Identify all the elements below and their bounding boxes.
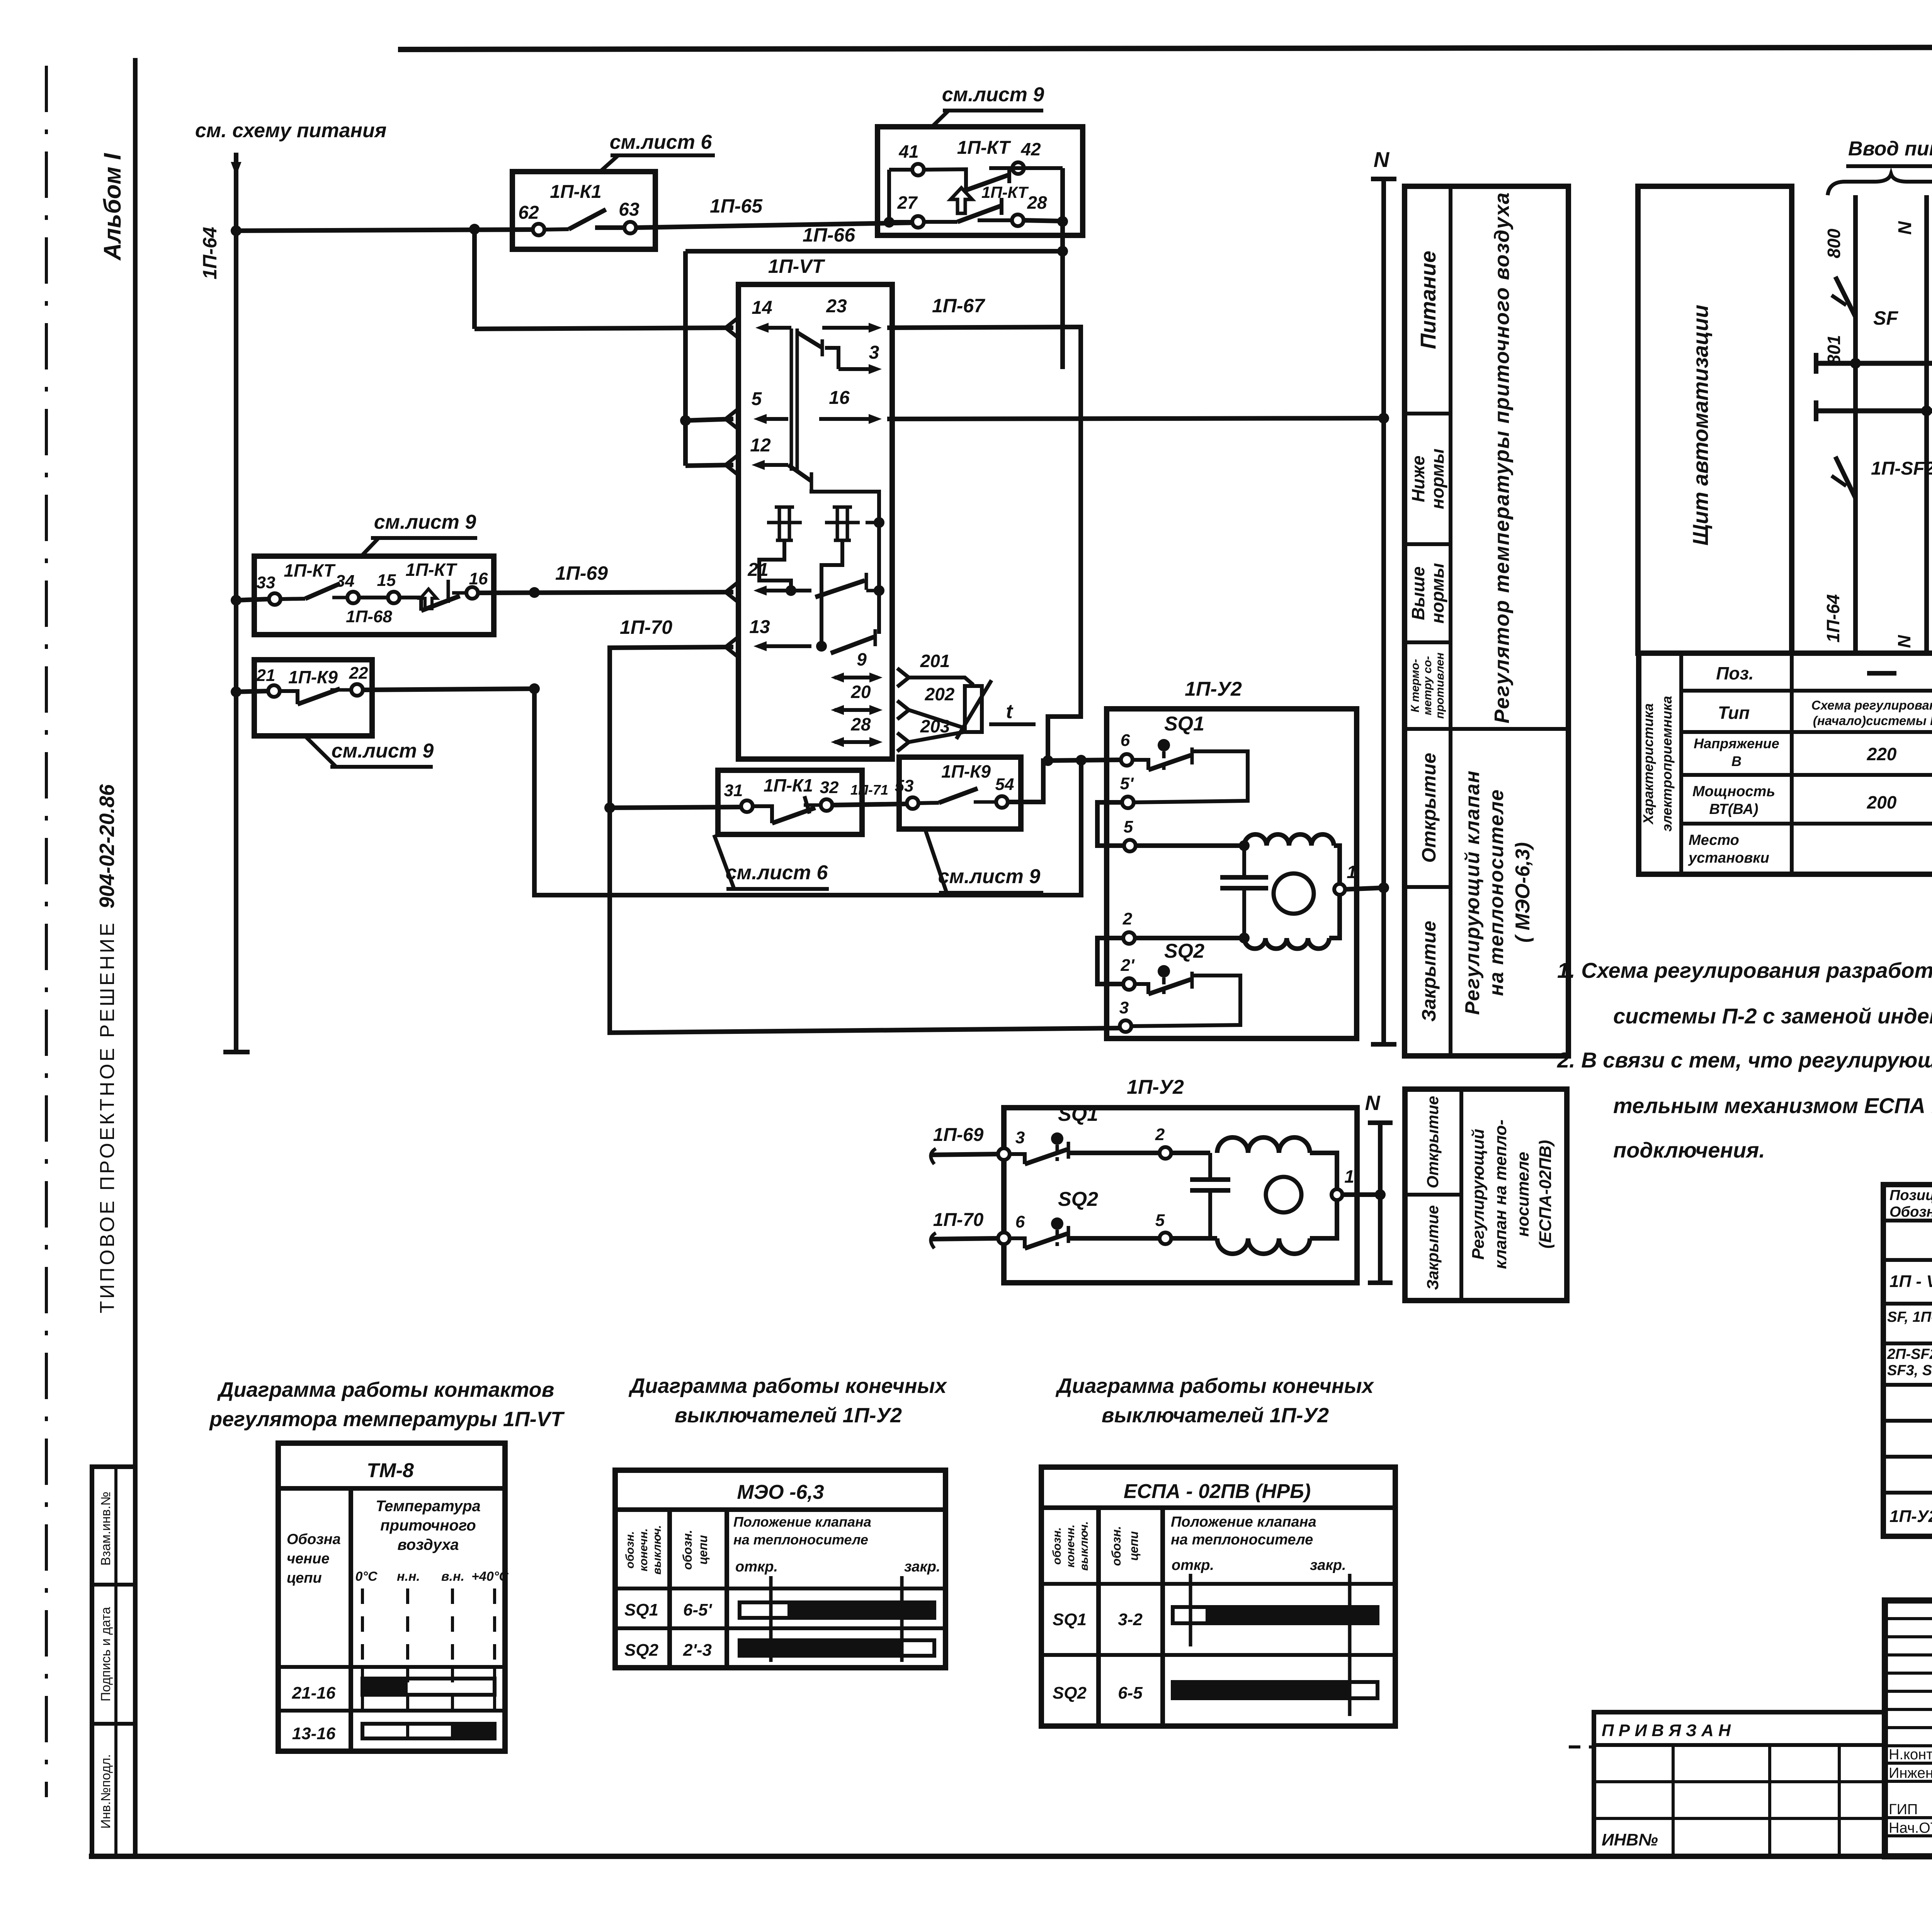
svg-text:31: 31 [724,781,743,800]
svg-text:Положение клапана: Положение клапана [1171,1514,1316,1530]
svg-text:1П-У2: 1П-У2 [1185,678,1242,700]
МЭО header Положение клапана [733,1514,871,1548]
svg-text:обозн.: обозн. [1109,1526,1123,1566]
svg-text:28: 28 [1027,192,1047,213]
svg-text:Поз.: Поз. [1716,663,1753,683]
svg-text:нормы: нормы [1427,563,1447,624]
pin 2 [1122,909,1135,944]
svg-text:5: 5 [1124,817,1133,836]
parts row 1П-VT [1889,1266,1932,1299]
svg-text:см.лист 9: см.лист 9 [374,511,476,533]
contact arm 33-34 [281,584,347,599]
svg-text:нормы: нормы [1427,449,1447,509]
svg-text:Регулятор температуры приточно: Регулятор температуры приточного воздуха [1490,192,1514,724]
pin 62 [518,203,544,235]
МЭО header [737,1481,824,1503]
callout см.лист 9 (53-54) [925,830,1043,893]
actuator 1П-У2 (МЭО-6,3) box [1107,678,1357,1039]
ТМ-8 header [367,1459,414,1482]
svg-text:закр.: закр. [1310,1557,1346,1573]
pin 3 [1119,998,1131,1032]
sidebar label Альбом I [99,153,126,261]
temperature regulator 1П-VT box [738,255,892,759]
wire 22 output to 1П-69 branch [363,683,540,694]
svg-text:SQ1: SQ1 [624,1600,658,1619]
wire net 1П-71 [833,782,907,805]
svg-text:1. Схема регулирования разра: 1. Схема регулирования разработана для с… [1557,958,1932,982]
ЕСПА header [1124,1480,1311,1503]
svg-text:21: 21 [747,560,768,580]
band label Закрытие [1418,921,1440,1021]
svg-text:Инв.№подл.: Инв.№подл. [99,1754,113,1829]
band label Открытие (ЕСПА) [1423,1096,1442,1188]
svg-text:5: 5 [1155,1211,1165,1230]
svg-text:6-5: 6-5 [1118,1684,1143,1702]
svg-text:выключ.: выключ. [651,1525,663,1575]
signal band table (ЕСПА) [1405,1089,1567,1301]
svg-text:62: 62 [518,203,539,223]
svg-text:Обозначен.: Обозначен. [1889,1204,1932,1220]
ЕСПА header Положение клапана [1171,1514,1316,1548]
svg-text:цепи: цепи [287,1570,322,1586]
relay contact box 1П-К1 31-32 [718,770,862,834]
svg-text:установки: установки [1688,850,1769,866]
phase bus 801 [1816,353,1932,374]
staff Нач.ОТД. Платонов [1889,1820,1932,1836]
svg-text:2: 2 [1155,1125,1165,1144]
svg-text:27: 27 [897,192,918,213]
svg-text:202: 202 [925,684,955,704]
svg-text:SF3, SF4: SF3, SF4 [1887,1362,1932,1379]
svg-text:см.лист 9: см.лист 9 [938,865,1041,888]
label 1П-КТ left [284,560,336,581]
net label 800 [1824,228,1844,258]
ЕСПА tick lines [1190,1574,1350,1716]
svg-text:Выше: Выше [1408,567,1428,620]
svg-text:Щит автоматизации: Щит автоматизации [1688,305,1713,545]
svg-text:SQ2: SQ2 [1058,1188,1098,1210]
terminal 203 [897,716,966,751]
callout см.лист 9 (left) [361,511,477,556]
svg-text:1П-К1: 1П-К1 [550,182,601,202]
svg-text:Диаграмма работы контактов: Диаграмма работы контактов [217,1378,554,1401]
pin 28 double arrow [831,714,883,747]
label Ввод питания [1846,138,1932,166]
svg-text:3: 3 [1119,998,1129,1017]
МЭО row SQ2 [624,1640,934,1660]
wire pin1 to N (ЕСПА) [1342,1189,1386,1200]
svg-text:41: 41 [898,141,918,162]
relay contact 1П-К1 contacts 62-63 box [512,172,655,249]
diagram title (contacts of 1П-VT) [209,1378,565,1431]
neutral bus N [1816,400,1932,421]
svg-text:см.лист 6: см.лист 6 [610,131,713,153]
ТМ-8 col label Обозначение цепи [287,1531,341,1586]
ЕСПА row SQ2 [1053,1682,1378,1702]
contact arm 21 [815,573,884,597]
svg-text:54: 54 [995,775,1014,794]
svg-text:Место: Место [1689,832,1739,848]
svg-text:Открытие: Открытие [1423,1096,1442,1188]
pin 2' [1121,956,1135,990]
svg-text:Открытие: Открытие [1418,753,1440,863]
pin 5' [1120,774,1134,808]
pin 5 [752,389,788,424]
callout см.лист 9 (К9) [305,736,434,767]
title block fine rows [1885,1619,1932,1836]
1П-КТ output junction wires [1024,168,1068,369]
pin 3 (ЕСПА) [998,1128,1025,1160]
pin 20 double arrow [831,682,883,715]
sidebar box label Подпись и дата [99,1607,113,1702]
band label Закрытие (ЕСПА) [1423,1205,1442,1290]
svg-text:выключателей 1П-У2: выключателей 1П-У2 [675,1404,902,1427]
label ПРИВЯЗАН [1602,1721,1731,1740]
svg-text:на теплоносителе: на теплоносителе [733,1532,868,1548]
neutral line N (regulator section) [1371,147,1396,1044]
wire pin1 to N [1345,882,1389,893]
svg-text:14: 14 [752,298,772,318]
band label Питание [1416,251,1440,349]
svg-text:1П-У2: 1П-У2 [1889,1507,1932,1526]
svg-text:Положение клапана: Положение клапана [733,1514,871,1530]
band label Регулирующий клапан на теплоносителе (ЕСПА-02ПВ) [1469,1120,1555,1269]
band label Ниже нормы [1408,449,1447,509]
pin 13 [749,617,811,651]
breaker SF [1832,271,1898,332]
junction thermo B to arm bus [866,517,884,528]
ТМ-8 row 21-16 [292,1679,495,1702]
ЕСПА col labels [1051,1521,1141,1571]
svg-text:откр.: откр. [1172,1557,1214,1573]
pin 14 [752,298,791,333]
svg-text:Питание: Питание [1416,251,1440,349]
svg-text:регулятора температуры 1П-VT: регулятора температуры 1П-VT [209,1408,565,1431]
svg-text:201: 201 [920,651,950,671]
neutral line N (ЕСПА section) [1365,1091,1393,1283]
svg-text:SF, 1П-SF2,: SF, 1П-SF2, [1887,1309,1932,1325]
callout см.лист 9 (top) [932,83,1044,127]
pin 2 (ЕСПА) [1155,1125,1171,1159]
svg-text:2': 2' [1121,956,1135,975]
staff Н.контр. Горская [1889,1747,1932,1763]
svg-text:200: 200 [1867,792,1897,812]
svg-text:1П-66: 1П-66 [803,224,855,246]
wire pin16 output to N [887,413,1389,424]
svg-text:тельным механизмом ЕСПА про: тельным механизмом ЕСПА производства НРБ… [1613,1093,1932,1118]
pin 42 [1012,139,1041,174]
ТМ-8 dashed scale lines [362,1588,495,1747]
svg-text:1: 1 [1347,862,1357,882]
svg-text:21-16: 21-16 [292,1684,336,1702]
svg-text:t: t [1006,700,1014,723]
1П-КТ internal left branch wire [884,170,912,228]
feeder breaker drop 1П-SF2 [1823,358,1932,653]
МЭО row SQ1 [624,1600,934,1619]
svg-text:Ниже: Ниже [1408,456,1428,502]
svg-text:см.лист 9: см.лист 9 [942,83,1044,106]
wire SQ2 to 3 [1132,976,1240,1026]
note см.схему питания [195,119,386,142]
svg-text:обозн.: обозн. [1051,1527,1063,1565]
svg-text:203: 203 [920,716,950,736]
svg-text:Схема регулирования: Схема регулирования [1811,698,1932,712]
motor winding lower [1244,895,1340,948]
ЕСПА откр закр [1172,1557,1346,1573]
ЕСПА row SQ1 [1053,1607,1378,1629]
pin 41 [898,141,924,175]
svg-text:0°С: 0°С [355,1569,378,1584]
svg-text:32: 32 [820,778,839,797]
contact arm 31-32 (closing) [753,796,821,823]
svg-text:1П-У2: 1П-У2 [1127,1076,1184,1098]
svg-text:обозн.: обозн. [624,1531,636,1569]
svg-text:(начало)системы П-1: (начало)системы П-1 [1813,713,1932,728]
sidebar box label Взам.инв.№ [99,1491,113,1566]
pin 5 stub from 1П-66 [680,410,737,428]
type cell 1 [1811,698,1932,728]
poz dash [1867,671,1896,676]
relay contact box 1П-К9 21-22 [254,660,372,736]
svg-text:( МЭО-6,3): ( МЭО-6,3) [1512,842,1534,943]
svg-text:Тип: Тип [1718,703,1750,723]
svg-text:ИНВ№: ИНВ№ [1602,1830,1658,1849]
svg-text:электроприемника: электроприемника [1659,696,1675,831]
thermostat contact box 1П-КТ 33-34-15-16 [254,556,494,635]
svg-text:Диаграмма работы конечных: Диаграмма работы конечных [1055,1374,1374,1398]
svg-text:Подпись и дата: Подпись и дата [99,1607,113,1702]
pin 5 (ЕСПА) [1155,1211,1171,1244]
svg-text:Напряжение: Напряжение [1694,735,1779,751]
svg-text:МЭО -6,3: МЭО -6,3 [737,1481,824,1503]
svg-text:3: 3 [1015,1128,1025,1147]
svg-text:SQ2: SQ2 [1164,940,1204,962]
parts row SF,1П-SF2 [1887,1309,1932,1336]
note 2 line 3 [1613,1138,1765,1162]
attachment box ПРИВЯЗАН [1594,1712,1885,1856]
svg-text:801: 801 [1824,335,1844,365]
diagram table ЕСПА-02ПВ [1041,1467,1395,1726]
svg-text:1П-КТ: 1П-КТ [284,560,336,581]
pin 32 [820,778,839,811]
staff ГИП Гуревич [1889,1801,1932,1818]
callout см.лист 6 (31-32) [714,835,829,889]
svg-text:ТИПОВОЕ ПРОЕКТНОЕ РЕШЕНИЕ: ТИПОВОЕ ПРОЕКТНОЕ РЕШЕНИЕ [96,921,119,1313]
svg-text:20: 20 [850,682,871,702]
svg-text:1П-К9: 1П-К9 [288,667,338,687]
wire net 1П-67 [887,295,1081,766]
band label Регулирующий клапан на теплоносителе (МЭО-6,3) [1461,770,1534,1015]
junction 1П-64 to 33 [231,595,269,606]
svg-text:23: 23 [826,296,847,317]
input wire 1П-70 (ЕСПА) [930,1210,998,1248]
svg-text:Закрытие: Закрытие [1418,921,1440,1021]
motor winding upper (ЕСПА) [1217,1137,1337,1190]
svg-text:5': 5' [1120,774,1134,793]
pin 1 (ЕСПА) [1332,1166,1354,1200]
contact arm 53-54 [919,788,996,803]
svg-text:ГИП: ГИП [1889,1801,1918,1818]
wire pin5 to motor [1136,840,1250,851]
svg-text:N: N [1894,635,1914,648]
pin 16 [466,569,488,599]
МЭО col labels [624,1525,710,1575]
svg-text:обозн.: обозн. [680,1530,694,1570]
sheet frame top border [398,46,1932,49]
wire element A to contact 21 [759,540,796,596]
svg-text:системы П-2 с заменой индек: системы П-2 с заменой индекса 1 в маркир… [1613,1004,1932,1028]
feeder N return 1П-SF2 [1894,405,1932,653]
svg-text:3-2: 3-2 [1118,1610,1143,1629]
svg-text:Обозна: Обозна [287,1531,341,1548]
ТМ-8 scale labels [355,1569,509,1584]
row label Напряжение В [1694,735,1779,769]
sidebar box label Инв.№подл. [99,1754,113,1829]
contact arm 27-28 [924,198,1012,222]
svg-text:противлен: противлен [1434,652,1446,718]
motor rotor circle (ЕСПА) [1266,1177,1301,1212]
pin 12 [750,435,788,470]
svg-text:1П-67: 1П-67 [932,295,985,317]
svg-text:13: 13 [749,617,770,637]
sidebar label 904-02-20.86 [95,784,119,908]
svg-text:1П-64: 1П-64 [1823,594,1843,642]
pin 27 [897,192,924,228]
svg-text:Характеристика: Характеристика [1640,703,1656,825]
parts table grid [1883,1185,1932,1536]
contact arm 21-22 К9 [280,689,351,704]
svg-text:1П-65: 1П-65 [710,195,763,217]
pin 23 [822,296,882,333]
МЭО откр закр [735,1559,940,1575]
svg-text:чение: чение [287,1551,330,1567]
input wire 1П-69 (ЕСПА) [930,1125,998,1164]
band label Выше нормы [1408,563,1447,624]
jumper bracket 5'-5 [1097,802,1124,846]
svg-text:2П-SF2,: 2П-SF2, [1887,1346,1932,1362]
svg-text:Взам.инв.№: Взам.инв.№ [99,1491,113,1566]
pin 12 stub from 1П-66 [685,456,737,474]
row label Тип [1718,703,1750,723]
callout см.лист 6 (top) [600,131,715,172]
svg-text:SQ1: SQ1 [1053,1610,1087,1629]
svg-text:ВТ(ВА): ВТ(ВА) [1709,801,1758,817]
diagram table МЭО-6,3 [615,1470,946,1668]
svg-text:220: 220 [1867,744,1897,764]
svg-text:9: 9 [857,649,867,669]
svg-text:21: 21 [256,666,276,685]
svg-text:3: 3 [869,342,879,363]
svg-text:1П-КТ: 1П-КТ [406,560,458,580]
pin 6 (ЕСПА) [998,1212,1025,1244]
wire 34-15 [346,598,392,626]
limit switch SQ1 [1133,713,1204,770]
wire net 1П-65 [636,195,918,228]
diagram title (limit switches ЕСПА) [1055,1374,1374,1427]
pin 54 [995,775,1014,808]
svg-text:К термо-: К термо- [1409,659,1422,712]
svg-text:53: 53 [895,776,914,795]
svg-text:конечн.: конечн. [637,1528,650,1571]
wire 54 output to У2 pin 6 [1008,760,1120,802]
thermo contact 15-16 with actuator [400,580,466,611]
wire pin14 from 62-junction [469,224,737,337]
supply brace [1828,174,1932,195]
svg-text:клапан на тепло-: клапан на тепло- [1491,1120,1510,1269]
limit switch SQ2 [1135,940,1204,994]
svg-text:см.лист 6: см.лист 6 [726,861,828,884]
wire 1П-69 branch to У2 pin 6 [529,587,1087,895]
pin 31 [724,781,753,812]
wire SQ1 to 5' [1134,751,1248,802]
svg-text:Регулирующий: Регулирующий [1469,1129,1488,1260]
svg-text:SQ1: SQ1 [1164,713,1204,735]
parts row 1П-У2 [1889,1498,1932,1531]
pin 34 [336,572,359,603]
terminal 201 [897,651,973,687]
svg-text:N: N [1365,1091,1381,1115]
motor winding lower (ЕСПА) [1217,1200,1337,1254]
pin 28 [1012,192,1047,226]
pin 53 [895,776,918,809]
svg-text:1П-64: 1П-64 [199,227,221,279]
svg-text:на теплоносителе: на теплоносителе [1485,789,1508,996]
svg-text:закр.: закр. [904,1559,940,1575]
row label Поз. [1716,663,1753,683]
svg-text:Температура: Температура [376,1498,481,1515]
svg-text:1П-VT: 1П-VT [768,255,826,277]
wire net 1П-66 [685,224,1063,466]
regulator contact arm top (14/23/3) [797,332,838,369]
regulator contact arm pin12 [788,465,879,634]
limit switch SQ1 (ЕСПА) [1010,1103,1160,1164]
ТМ-8 row 13-16 [292,1724,495,1743]
svg-text:SQ1: SQ1 [1058,1103,1098,1125]
svg-text:6-5': 6-5' [683,1600,713,1619]
svg-text:выключ.: выключ. [1078,1521,1090,1571]
svg-text:SQ2: SQ2 [624,1641,659,1660]
capacitor C (ЕСПА) [1171,1153,1230,1238]
characteristics table grid [1639,653,1932,874]
svg-text:в.н.: в.н. [441,1569,464,1584]
svg-text:Н.контр.: Н.контр. [1889,1747,1932,1763]
svg-text:ТМ-8: ТМ-8 [367,1459,414,1482]
svg-text:SF: SF [1873,307,1898,329]
row label Место установки [1688,832,1769,866]
wire element B to contact 13 [816,540,842,652]
svg-text:28: 28 [850,714,871,734]
sheet frame bottom border [89,1854,1932,1859]
power values [1867,792,1932,812]
pin 33 [257,573,281,605]
МЭО tick lines [771,1576,902,1662]
svg-text:1П-71: 1П-71 [850,782,888,798]
svg-text:Диаграмма работы конечных: Диаграмма работы конечных [628,1374,947,1398]
svg-text:16: 16 [829,388,850,408]
wire 1П-64 to contact 62 [236,230,532,231]
svg-text:+40°С: +40°С [471,1569,509,1584]
pin 16 [819,388,882,424]
svg-text:(ЕСПА-02ПВ): (ЕСПА-02ПВ) [1536,1140,1555,1249]
label 1П-КТ right [406,560,458,580]
svg-text:цепи: цепи [1127,1531,1141,1561]
svg-text:904-02-20.86: 904-02-20.86 [95,784,119,908]
svg-text:П Р И В Я З А Н: П Р И В Я З А Н [1602,1721,1731,1740]
staff Инженер Фрумкер [1889,1765,1932,1781]
svg-text:н.н.: н.н. [397,1569,420,1584]
note 1 line 1 [1557,958,1932,982]
note 2 line 1 [1557,1048,1932,1072]
